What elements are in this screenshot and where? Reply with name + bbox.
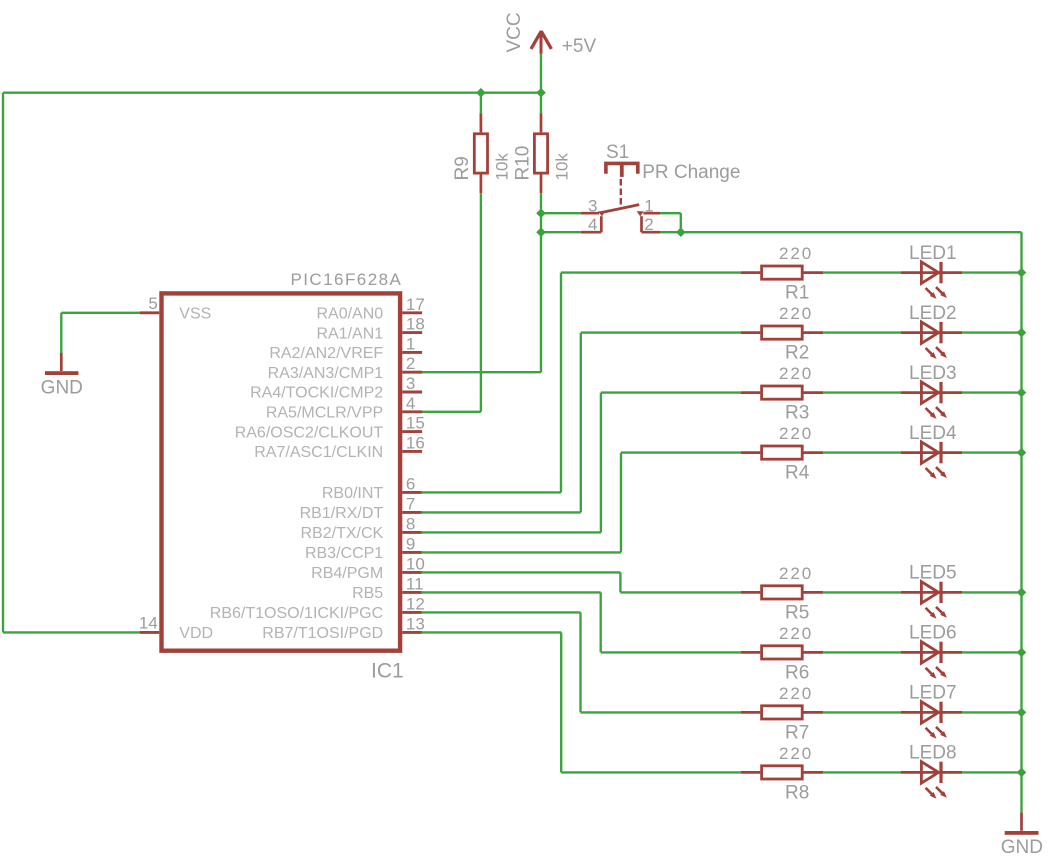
supply symbol VCC +5V bbox=[531, 31, 551, 93]
svg-text:220: 220 bbox=[779, 744, 813, 763]
svg-text:8: 8 bbox=[406, 514, 415, 533]
pin 14 VDD bbox=[140, 631, 159, 634]
svg-text:RA6/OSC2/CLKOUT: RA6/OSC2/CLKOUT bbox=[235, 424, 384, 441]
wire to switch pin 4 bbox=[541, 231, 581, 233]
svg-text:RB1/RX/DT: RB1/RX/DT bbox=[300, 505, 384, 522]
wire LED8 to bus bbox=[962, 771, 1021, 773]
svg-text:15: 15 bbox=[406, 414, 425, 433]
wire LED1 to bus bbox=[962, 271, 1021, 273]
svg-text:220: 220 bbox=[779, 304, 813, 323]
wire RB3 pin 9 to R4 bbox=[421, 453, 741, 553]
wire switch output to right bus bbox=[681, 231, 1022, 233]
svg-text:18: 18 bbox=[406, 315, 425, 334]
LED LED6 bbox=[901, 642, 962, 679]
resistor R2 220 bbox=[741, 326, 823, 339]
resistor R4 220 bbox=[741, 446, 823, 459]
wire R9 to pin RA5 bbox=[421, 193, 481, 412]
svg-text:IC1: IC1 bbox=[371, 660, 404, 683]
svg-text:RB3/CCP1: RB3/CCP1 bbox=[305, 545, 383, 562]
svg-text:12: 12 bbox=[406, 594, 425, 613]
svg-text:R1: R1 bbox=[785, 283, 809, 304]
pin 4 RA5/MCLR/VPP bbox=[402, 410, 422, 413]
pin 16 RA7/ASC1/CLKIN bbox=[402, 450, 422, 453]
pin 18 RA1/AN1 bbox=[402, 331, 422, 334]
wire switch pin 1 to junction column bbox=[660, 213, 681, 232]
wire RB4 pin 10 to R5 bbox=[421, 572, 741, 592]
wire left loop vertical (VDD feed) bbox=[2, 93, 4, 633]
LED LED8 bbox=[901, 762, 962, 799]
wire RB1 pin 7 to R2 bbox=[421, 333, 741, 513]
junction R10 column / switch pin 3 row bbox=[536, 208, 546, 218]
resistor R10 10k bbox=[534, 93, 547, 194]
wire LED5 to bus bbox=[962, 591, 1021, 593]
svg-text:16: 16 bbox=[406, 433, 425, 452]
switch S1 pin 2 bbox=[642, 216, 661, 232]
svg-text:220: 220 bbox=[779, 624, 813, 643]
svg-text:220: 220 bbox=[779, 424, 813, 443]
svg-text:17: 17 bbox=[406, 295, 425, 314]
junction LED7 / bus bbox=[1017, 708, 1027, 718]
wire pin 5 to GND bbox=[61, 313, 140, 353]
svg-text:R8: R8 bbox=[785, 782, 809, 803]
pin 10 RB4/PGM bbox=[402, 571, 422, 574]
svg-text:R10: R10 bbox=[513, 146, 534, 181]
LED LED4 bbox=[901, 442, 962, 479]
pin 1 RA2/AN2/VREF bbox=[402, 351, 422, 354]
resistor R5 220 bbox=[741, 586, 823, 599]
junction at VCC rail / R9 bbox=[476, 88, 486, 98]
junction LED1 / bus bbox=[1017, 268, 1027, 278]
svg-text:LED1: LED1 bbox=[909, 243, 957, 264]
resistor R6 220 bbox=[741, 646, 823, 659]
switch S1 pin 1 bbox=[643, 212, 660, 215]
svg-text:RA7/ASC1/CLKIN: RA7/ASC1/CLKIN bbox=[254, 444, 383, 461]
svg-text:9: 9 bbox=[406, 534, 415, 553]
ground GND (left) bbox=[45, 353, 78, 375]
pin 9 RB3/CCP1 bbox=[402, 551, 422, 554]
svg-text:10: 10 bbox=[406, 554, 425, 573]
svg-text:R7: R7 bbox=[785, 722, 809, 743]
switch S1 lever and contacts bbox=[598, 205, 644, 217]
LED LED3 bbox=[901, 382, 962, 419]
svg-text:R2: R2 bbox=[785, 343, 809, 364]
svg-text:RA1/AN1: RA1/AN1 bbox=[316, 325, 383, 342]
wire LED6 to bus bbox=[962, 651, 1021, 653]
switch S1 button actuator bbox=[606, 163, 638, 177]
junction LED4 / bus bbox=[1017, 448, 1027, 458]
resistor R8 220 bbox=[741, 766, 823, 779]
svg-text:RA3/AN3/CMP1: RA3/AN3/CMP1 bbox=[268, 365, 384, 382]
wire LED3 to bus bbox=[962, 391, 1021, 393]
wire RB0 pin 6 to R1 bbox=[421, 273, 741, 493]
junction switch output bbox=[676, 227, 686, 237]
pin 15 RA6/OSC2/CLKOUT bbox=[402, 430, 422, 433]
wire RB6 pin 12 to R7 bbox=[421, 612, 741, 712]
wire R10 down through switch rows to pin RA3 bbox=[421, 193, 541, 372]
svg-text:6: 6 bbox=[406, 474, 415, 493]
wire VDD pin 14 horizontal bbox=[3, 631, 140, 633]
svg-text:1: 1 bbox=[406, 334, 415, 353]
svg-text:220: 220 bbox=[779, 364, 813, 383]
wire R7 to LED7 bbox=[823, 711, 901, 713]
svg-text:RA4/TOCKI/CMP2: RA4/TOCKI/CMP2 bbox=[250, 385, 383, 402]
LED LED5 bbox=[901, 582, 962, 619]
svg-text:R4: R4 bbox=[785, 463, 810, 484]
svg-text:4: 4 bbox=[406, 394, 415, 413]
svg-text:RB2/TX/CK: RB2/TX/CK bbox=[301, 525, 384, 542]
svg-text:RA0/AN0: RA0/AN0 bbox=[316, 306, 383, 323]
wire VCC rail top horizontal bbox=[3, 92, 541, 94]
svg-text:LED8: LED8 bbox=[909, 743, 957, 764]
wire R3 to LED3 bbox=[823, 391, 901, 393]
svg-text:RA5/MCLR/VPP: RA5/MCLR/VPP bbox=[266, 405, 383, 422]
svg-text:5: 5 bbox=[148, 294, 157, 313]
ground GND (bottom right) bbox=[1005, 812, 1039, 834]
wire to switch pin 3 bbox=[541, 212, 581, 214]
wire RB7 pin 13 to R8 bbox=[421, 632, 741, 772]
svg-text:RB7/T1OSI/PGD: RB7/T1OSI/PGD bbox=[262, 625, 383, 642]
wire R4 to LED4 bbox=[823, 451, 901, 453]
svg-text:R5: R5 bbox=[785, 602, 809, 623]
svg-text:4: 4 bbox=[588, 215, 597, 234]
switch S1 pin 3 bbox=[581, 212, 600, 215]
svg-text:10k: 10k bbox=[493, 153, 512, 181]
svg-text:R6: R6 bbox=[785, 662, 809, 683]
svg-text:GND: GND bbox=[1001, 837, 1043, 858]
svg-text:PR Change: PR Change bbox=[642, 162, 740, 183]
resistor R9 10k bbox=[474, 93, 487, 194]
pin 6 RB0/INT bbox=[402, 491, 422, 494]
svg-text:VSS: VSS bbox=[179, 306, 211, 323]
svg-text:LED2: LED2 bbox=[909, 303, 957, 324]
pin 8 RB2/TX/CK bbox=[402, 531, 422, 534]
junction LED8 / bus bbox=[1017, 768, 1027, 778]
pin 17 RA0/AN0 bbox=[402, 311, 422, 314]
pin 11 RB5 bbox=[402, 591, 422, 594]
svg-text:2: 2 bbox=[644, 215, 653, 234]
svg-text:VDD: VDD bbox=[179, 625, 213, 642]
svg-text:LED6: LED6 bbox=[909, 623, 957, 644]
svg-text:10k: 10k bbox=[552, 153, 571, 181]
wire LED4 to bus bbox=[962, 451, 1021, 453]
op-amp IC1 PIC16F628A body bbox=[162, 293, 401, 650]
junction R10 column / switch pin 4 row bbox=[536, 227, 546, 237]
wire R8 to LED8 bbox=[823, 771, 901, 773]
svg-text:RB5: RB5 bbox=[352, 585, 383, 602]
svg-text:1: 1 bbox=[644, 196, 653, 215]
svg-text:3: 3 bbox=[588, 196, 597, 215]
svg-text:RB4/PGM: RB4/PGM bbox=[311, 565, 383, 582]
wire RB5 pin 11 to R6 bbox=[421, 592, 741, 652]
svg-text:RB0/INT: RB0/INT bbox=[322, 485, 384, 502]
junction at VCC rail / R10 bbox=[536, 88, 546, 98]
svg-text:RA2/AN2/VREF: RA2/AN2/VREF bbox=[269, 345, 383, 362]
svg-text:3: 3 bbox=[406, 374, 415, 393]
svg-text:LED4: LED4 bbox=[909, 423, 957, 444]
svg-text:220: 220 bbox=[779, 684, 813, 703]
svg-text:LED7: LED7 bbox=[909, 683, 957, 704]
junction LED5 / bus bbox=[1017, 588, 1027, 598]
svg-text:7: 7 bbox=[406, 494, 415, 513]
LED LED1 bbox=[901, 262, 962, 299]
resistor R1 220 bbox=[741, 266, 823, 279]
resistor R7 220 bbox=[741, 706, 823, 719]
pin 3 RA4/TOCKI/CMP2 bbox=[402, 391, 422, 394]
svg-text:S1: S1 bbox=[606, 142, 629, 163]
svg-text:GND: GND bbox=[41, 377, 83, 398]
svg-text:VCC: VCC bbox=[504, 12, 525, 52]
junction LED6 / bus bbox=[1017, 648, 1027, 658]
pin 13 RB7/T1OSI/PGD bbox=[402, 631, 422, 634]
switch S1 dashed linkage bbox=[620, 179, 622, 209]
wire LED7 to bus bbox=[962, 711, 1021, 713]
pin 12 RB6/T1OSO/1ICKI/PGC bbox=[402, 611, 422, 614]
pin 5 VSS bbox=[140, 311, 159, 314]
svg-text:R9: R9 bbox=[452, 156, 473, 180]
svg-text:+5V: +5V bbox=[562, 36, 597, 57]
svg-text:R3: R3 bbox=[785, 403, 809, 424]
wire R2 to LED2 bbox=[823, 331, 901, 333]
wire R1 to LED1 bbox=[823, 271, 901, 273]
svg-text:220: 220 bbox=[779, 244, 813, 263]
pin 7 RB1/RX/DT bbox=[402, 511, 422, 514]
svg-text:220: 220 bbox=[779, 564, 813, 583]
switch S1 pin 4 bbox=[581, 216, 602, 232]
svg-text:RB6/T1OSO/1ICKI/PGC: RB6/T1OSO/1ICKI/PGC bbox=[210, 605, 383, 622]
svg-text:2: 2 bbox=[406, 354, 415, 373]
wire right vertical bus (LED cathode rail) bbox=[1020, 232, 1022, 812]
svg-text:PIC16F628A: PIC16F628A bbox=[290, 270, 402, 289]
wire R6 to LED6 bbox=[823, 651, 901, 653]
LED LED2 bbox=[901, 322, 962, 359]
svg-text:LED5: LED5 bbox=[909, 563, 957, 584]
junction LED3 / bus bbox=[1017, 388, 1027, 398]
svg-text:13: 13 bbox=[406, 614, 425, 633]
svg-text:LED3: LED3 bbox=[909, 363, 957, 384]
wire RB2 pin 8 to R3 bbox=[421, 393, 741, 533]
svg-text:11: 11 bbox=[406, 574, 424, 593]
svg-text:14: 14 bbox=[139, 614, 158, 633]
wire R5 to LED5 bbox=[823, 591, 901, 593]
wire switch pin 2 to junction bbox=[660, 231, 681, 233]
pin 2 RA3/AN3/CMP1 bbox=[402, 371, 422, 374]
LED LED7 bbox=[901, 702, 962, 739]
junction LED2 / bus bbox=[1017, 328, 1027, 338]
wire LED2 to bus bbox=[962, 331, 1021, 333]
resistor R3 220 bbox=[741, 386, 823, 399]
